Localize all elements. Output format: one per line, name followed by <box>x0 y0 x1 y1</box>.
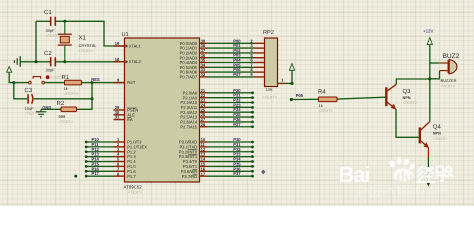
pin 6 P1.5 (left) <box>114 162 137 170</box>
capacitor C2 <box>51 57 56 66</box>
resistor R4 <box>319 97 338 102</box>
wire P10 <box>85 137 114 143</box>
pin 39 P0.0/AD0 (right) <box>180 38 207 46</box>
svg-text:<TEXT>: <TEXT> <box>441 83 456 88</box>
capacitor C1 <box>51 17 56 26</box>
wire buzzer top pin <box>430 62 439 64</box>
wire C1-C2 left vertical <box>35 21 37 62</box>
mcu U1 AT89C52 body <box>125 38 200 182</box>
pin 27 P2.6/A14 (right) <box>180 117 207 125</box>
node C1 branch on C2 row <box>35 60 38 63</box>
pin 18 XTAL2 (left) <box>114 57 142 64</box>
wire RP2 pin1 to power <box>285 82 293 84</box>
pin 22 P2.1/A9 (right) <box>183 93 207 101</box>
svg-text:10K: 10K <box>266 87 273 92</box>
wire P34 <box>207 157 254 163</box>
wire P35 <box>207 161 254 167</box>
pin 37 P0.2/AD2 (right) <box>180 48 207 56</box>
svg-text:P05: P05 <box>296 93 304 98</box>
push button (reset switch) <box>29 77 45 84</box>
wire C3 row <box>14 83 27 99</box>
RP2 pin 8 stub <box>250 67 264 72</box>
svg-text:RES: RES <box>91 77 100 82</box>
pin 34 P0.5/AD5 (right) <box>180 62 207 70</box>
resistor pack RP2 <box>265 38 278 87</box>
pin 28 P2.7/A15 (right) <box>180 122 207 130</box>
node reset power junction <box>12 81 15 84</box>
wire P22 <box>207 98 254 104</box>
wire P27 <box>207 122 254 128</box>
node stray junction <box>74 175 77 178</box>
wire P11 <box>85 142 114 148</box>
pin 23 P2.2/A10 (right) <box>180 98 207 106</box>
wire up to power arrow <box>291 70 293 83</box>
svg-text:<TEXT>: <TEXT> <box>263 94 278 99</box>
wire P31 <box>207 142 254 148</box>
svg-text:<TEXT>: <TEXT> <box>433 136 448 141</box>
svg-text:XTAL2: XTAL2 <box>129 59 142 64</box>
svg-text:BUZZER: BUZZER <box>441 78 457 83</box>
svg-text:RST: RST <box>127 80 136 85</box>
wire R2 to ground <box>41 108 61 110</box>
svg-text:RP2: RP2 <box>263 30 274 36</box>
wire Q3 emitter to Q4 base <box>396 109 419 137</box>
switch state dot (red) <box>46 75 50 79</box>
pin 1 P1.0/T2 (left) <box>114 137 143 145</box>
node C3 joins RST column <box>91 97 94 100</box>
svg-text:P1.7: P1.7 <box>127 174 136 179</box>
wire P03 to RP2 pin 5 <box>207 53 254 58</box>
svg-text:P27: P27 <box>233 122 241 127</box>
pin 26 P2.5/A13 (right) <box>180 112 207 120</box>
wire P01 to RP2 pin 3 <box>207 43 254 48</box>
svg-text:18: 18 <box>115 57 120 62</box>
svg-text:C3: C3 <box>25 87 33 94</box>
RP2 pin 7 stub <box>250 62 264 67</box>
pin 35 P0.4/AD4 (right) <box>180 58 207 66</box>
transistor Q4 <box>420 122 430 147</box>
pin 31 EA (left) <box>114 115 133 123</box>
pin 29 PSEN (left) <box>114 105 139 113</box>
svg-text:du: du <box>396 169 413 184</box>
wire P13 <box>85 152 114 158</box>
node crystal-top junction <box>63 20 66 23</box>
RP2 pin 9 stub <box>250 72 264 77</box>
pin 12 P3.2/INT0 (right) <box>179 147 207 155</box>
RP2 pin 1 <box>278 77 285 83</box>
wire P06 to RP2 pin 8 <box>207 67 254 72</box>
svg-text:P2.7/A15: P2.7/A15 <box>180 124 198 129</box>
wire C1 top row to XTAL1 <box>36 20 51 22</box>
pin 15 P3.5/T1 (right) <box>183 162 207 170</box>
pin 9 RST (left) <box>114 78 136 86</box>
pin 13 P3.3/INT1 (right) <box>179 152 207 160</box>
power terminal +5V (RP2) <box>289 64 294 71</box>
ground (crystal row, left) <box>14 56 20 67</box>
wire P30 <box>207 137 254 143</box>
pin 25 P2.4/A12 (right) <box>180 107 207 115</box>
wire R4 to Q3 base <box>337 97 385 99</box>
svg-text:<TEXT>: <TEXT> <box>128 190 143 195</box>
svg-text:<TEXT>: <TEXT> <box>319 108 334 113</box>
svg-text:P07: P07 <box>233 72 241 77</box>
svg-text:<TEXT>: <TEXT> <box>64 91 79 96</box>
pin 19 XTAL1 (left) <box>114 41 142 48</box>
svg-text:P17: P17 <box>92 171 100 176</box>
wire Q4 emitter to sheet edge <box>427 157 429 183</box>
wire P17 <box>85 171 114 177</box>
transistor Q3 <box>386 84 396 109</box>
svg-text:C1: C1 <box>44 9 52 16</box>
wire P05 to R4 <box>291 98 318 100</box>
wire C2 row / XTAL2 <box>20 61 50 63</box>
svg-text:BUZ2: BUZ2 <box>443 53 460 60</box>
svg-text:<TEXT>: <TEXT> <box>403 100 418 105</box>
marker diamond (P36 row) <box>261 170 265 175</box>
wire P07 to RP2 pin 9 <box>207 72 254 77</box>
resistor R2 <box>61 107 77 112</box>
svg-text:17: 17 <box>201 171 206 176</box>
pin 7 P1.6 (left) <box>114 166 137 174</box>
RP2 pin 2 stub <box>250 38 264 43</box>
wire P36 <box>207 166 254 172</box>
pin 10 P3.0/RXD (right) <box>179 137 207 145</box>
svg-text:P37: P37 <box>233 171 241 176</box>
svg-text:28: 28 <box>201 122 206 127</box>
svg-text:31: 31 <box>115 115 120 120</box>
svg-text:X1: X1 <box>79 34 87 41</box>
RP2 pin 5 stub <box>250 53 264 58</box>
RP2 pin 6 stub <box>250 58 264 63</box>
svg-text:R4: R4 <box>318 88 326 95</box>
svg-text:U1: U1 <box>122 32 129 38</box>
wire P20 <box>207 88 254 94</box>
svg-text:NPN: NPN <box>433 131 441 135</box>
buzzer BUZ2 <box>439 60 457 74</box>
svg-text:P3.7/RD: P3.7/RD <box>182 174 198 179</box>
wire P05 to RP2 pin 7 <box>207 62 254 67</box>
wire P16 <box>85 166 114 172</box>
pin 30 ALE (left) <box>114 110 136 118</box>
wire Q3 collector to rail <box>396 79 430 84</box>
wire P37 <box>207 171 254 177</box>
svg-text:Q4: Q4 <box>433 124 442 131</box>
svg-text:32: 32 <box>201 72 206 77</box>
pin 3 P1.2 (left) <box>114 147 137 155</box>
capacitor C3 (polarized) <box>28 94 33 104</box>
svg-text:30pF: 30pF <box>46 68 56 73</box>
pin 38 P0.1/AD1 (right) <box>180 43 207 51</box>
pin 32 P0.7/AD7 (right) <box>180 72 207 80</box>
pin 11 P3.1/TXD (right) <box>179 142 207 150</box>
svg-text:P0.7/AD7: P0.7/AD7 <box>180 75 198 80</box>
wire P04 to RP2 pin 6 <box>207 58 254 63</box>
ground (reset R2) <box>36 109 46 116</box>
pin 8 P1.7 (left) <box>114 171 137 179</box>
wire power to switch row <box>9 72 28 82</box>
svg-text:XTAL1: XTAL1 <box>129 43 142 48</box>
svg-text:R2: R2 <box>57 100 65 107</box>
RP2 pin 4 stub <box>250 48 264 53</box>
pin 5 P1.4 (left) <box>114 157 137 165</box>
pin 4 P1.3 (left) <box>114 152 137 160</box>
node buzzer/collector junction <box>428 77 431 80</box>
pin 24 P2.3/A11 (right) <box>181 102 207 110</box>
svg-text:NPN: NPN <box>403 96 411 100</box>
wire P26 <box>207 117 254 123</box>
wire buzzer bottom pin <box>430 71 440 79</box>
svg-text:<TEXT>: <TEXT> <box>79 48 94 53</box>
svg-text:CRYSTAL: CRYSTAL <box>79 43 98 48</box>
svg-text:R1: R1 <box>62 74 70 81</box>
pin 2 P1.1/T2EX (left) <box>114 142 148 150</box>
node P05 wire start <box>290 98 293 101</box>
svg-text:EA: EA <box>127 117 133 122</box>
wire P15 <box>85 161 114 167</box>
svg-text:Bai: Bai <box>339 162 370 187</box>
pin 21 P2.0/A8 (right) <box>183 88 207 96</box>
wire +12V rail <box>429 45 431 122</box>
pin 33 P0.6/AD6 (right) <box>180 67 207 75</box>
wire R1 to RST pin <box>82 82 125 84</box>
node crystal bottom junction <box>63 60 66 63</box>
wire P02 to RP2 pin 4 <box>207 48 254 53</box>
wire P23 <box>207 102 254 108</box>
pin 36 P0.3/AD3 (right) <box>180 53 207 61</box>
crystal X1 <box>58 21 72 62</box>
wire P21 <box>207 93 254 99</box>
power terminal +5V (reset) <box>7 67 12 73</box>
wire Q4 emitter pin down <box>427 148 429 157</box>
wire P14 <box>85 157 114 163</box>
wire P32 <box>207 147 254 153</box>
svg-text:jingyan.baidu.com: jingyan.baidu.com <box>357 185 449 197</box>
pin 17 P3.7/RD (right) <box>182 171 207 179</box>
resistor R1 <box>65 80 82 85</box>
RP2 pin 3 stub <box>250 43 264 48</box>
wire switch to R1 <box>45 82 65 84</box>
svg-text:19: 19 <box>115 41 120 46</box>
wire P00 to RP2 pin 2 <box>207 38 254 43</box>
node RP2 power junction <box>290 82 293 85</box>
wire P12 <box>85 147 114 153</box>
svg-text:+12V: +12V <box>423 29 433 34</box>
pin 14 P3.4/T0 (right) <box>183 157 207 165</box>
svg-text:<TEXT>: <TEXT> <box>59 119 74 124</box>
wire P25 <box>207 112 254 118</box>
svg-text:Q3: Q3 <box>403 88 412 95</box>
wire RST down to R2 <box>77 83 93 110</box>
wire P33 <box>207 152 254 158</box>
wire P24 <box>207 107 254 113</box>
svg-text:C2: C2 <box>44 50 52 57</box>
node RST / R2 junction <box>91 81 94 84</box>
pin 16 P3.6/WR (right) <box>181 166 207 174</box>
watermark Baidu Jingyan <box>339 157 453 197</box>
